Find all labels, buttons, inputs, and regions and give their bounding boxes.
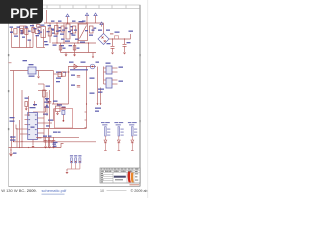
value RL2 c	[121, 135, 124, 136]
value F1b	[10, 32, 13, 33]
wire bottom rail 3	[9, 147, 62, 149]
resistor R2	[115, 36, 119, 39]
stem C7	[62, 115, 64, 121]
tp tick 1	[71, 161, 72, 162]
optocoupler U3	[106, 66, 112, 74]
svg-text:10: 10	[100, 189, 104, 193]
junction top bus b	[67, 22, 68, 23]
pin U3 l1	[104, 67, 107, 69]
capacitor C3	[111, 47, 115, 49]
wire mid v2	[49, 90, 51, 128]
label Q1	[53, 101, 58, 102]
switcher IC U2	[79, 24, 88, 41]
tp common wire	[67, 168, 80, 170]
ground G2	[73, 55, 76, 57]
label TP2	[74, 155, 77, 156]
frame tick left B	[8, 90, 9, 92]
title text r1g	[121, 168, 123, 171]
title text r1c	[106, 168, 107, 171]
label caps row b	[58, 132, 61, 133]
pin U5 r5	[37, 137, 41, 139]
tp stem 2	[75, 163, 77, 169]
title text right c	[135, 179, 138, 182]
frame top ruler band	[9, 5, 141, 9]
junction rail1 b	[21, 141, 22, 142]
frame bottom border	[9, 186, 141, 188]
wire drop M6	[74, 43, 76, 53]
gnd stem C3	[112, 48, 114, 52]
mcu centre text	[31, 127, 35, 128]
pin text U5 e0	[35, 115, 37, 116]
pin text U5 d	[28, 134, 30, 135]
pin tick rail b1	[85, 111, 87, 113]
pin U5 l1	[25, 119, 28, 121]
label mcu right a	[43, 114, 48, 115]
junction C7 end	[63, 120, 65, 122]
varistor RV1	[25, 29, 28, 35]
wire rail left	[13, 71, 15, 142]
label terminals 2	[95, 111, 99, 112]
resistor R12	[25, 102, 28, 107]
label strip x12	[74, 30, 77, 31]
label U3	[106, 63, 111, 64]
diode marker blue a	[46, 99, 48, 101]
junction J1	[112, 38, 113, 39]
label B1	[98, 30, 102, 31]
wire drop aux	[68, 67, 70, 105]
label C2	[72, 35, 76, 36]
wire bl v1	[11, 136, 13, 148]
label strip x9	[56, 31, 60, 32]
label LED1 a2	[105, 122, 110, 123]
capacitor C7 bars	[61, 108, 66, 110]
pin U4 r2	[112, 83, 118, 85]
frame tick left A	[8, 54, 9, 56]
pin U5 l2	[25, 124, 28, 126]
wire mcu stub v	[45, 106, 47, 112]
net arrow a	[67, 71, 69, 73]
frame tick right B	[139, 120, 140, 122]
net label U4r	[119, 81, 124, 82]
gnd stem C4	[124, 46, 126, 52]
label mcu right b	[48, 120, 53, 121]
pin tick rail b3	[85, 127, 87, 129]
capacitor CX1	[32, 28, 35, 33]
wire mid v3	[21, 90, 23, 112]
value RL3 a	[134, 129, 137, 130]
wire dc rail	[109, 38, 131, 40]
label strip x10	[62, 30, 65, 31]
wire mid v4	[28, 96, 30, 116]
label mid strip f	[75, 39, 79, 40]
LED D7	[131, 140, 134, 143]
diode D9	[37, 25, 40, 28]
value CX2	[52, 30, 55, 31]
power arrow P1	[66, 14, 69, 19]
value R1b	[59, 30, 62, 31]
inductor L2	[35, 29, 38, 34]
label F1	[10, 27, 14, 28]
wire drop M10	[95, 18, 97, 24]
svg-text:© 2009 ab: © 2009 ab	[131, 189, 148, 193]
capacitor C7 body	[62, 111, 65, 115]
label mid strip c	[38, 27, 41, 28]
label strip x18	[69, 45, 73, 46]
gnd stem U5	[32, 140, 34, 146]
value CX1	[28, 31, 31, 32]
wire riser X1	[46, 10, 48, 23]
label C10	[53, 144, 57, 145]
gnd stem G1	[65, 53, 67, 55]
frame left border	[8, 5, 10, 187]
wire stub left edge	[9, 62, 12, 64]
title block row line 1	[100, 169, 140, 171]
title text r3a	[101, 172, 103, 175]
wire drop M2	[56, 23, 58, 43]
label CX1	[30, 25, 34, 26]
value T2b	[38, 33, 41, 34]
power arrow P3	[94, 13, 97, 18]
title text r2f	[109, 170, 112, 173]
label mcu left b	[10, 121, 15, 122]
label R3	[63, 48, 66, 49]
capacitor C5	[77, 76, 80, 78]
label C12	[77, 48, 80, 49]
tp corner drop	[66, 169, 68, 172]
label LED1 b	[102, 124, 107, 125]
led terminal 1	[104, 150, 107, 152]
pin text U5 e	[35, 119, 37, 120]
value RL3 b	[134, 132, 137, 133]
value U2	[80, 42, 85, 43]
led stem 3 top	[131, 136, 133, 140]
note below title block	[130, 184, 140, 185]
label LED2 b	[116, 124, 121, 125]
label CX2	[48, 25, 52, 26]
frame right border	[139, 5, 141, 187]
label terminals	[95, 108, 101, 109]
label mid strip d	[44, 41, 48, 42]
pin U5 l0	[25, 114, 28, 116]
microcontroller U5	[28, 113, 38, 140]
label strip x16	[53, 45, 57, 46]
led stem 1 top	[104, 136, 106, 140]
title text r2d	[121, 170, 126, 173]
gnd stem K1	[38, 71, 40, 77]
LED D6	[117, 140, 120, 143]
switcher IC U2 diagonal	[80, 26, 87, 39]
wire bl v2	[16, 128, 18, 148]
label strip x11	[68, 31, 71, 32]
junction J5	[10, 149, 11, 150]
value U1c	[71, 33, 74, 34]
value L2	[36, 35, 40, 36]
title block row line 6	[100, 180, 113, 182]
svg-text:schematic.pdf: schematic.pdf	[42, 188, 68, 193]
wire opto feed	[103, 67, 105, 85]
label strip x13	[85, 30, 88, 31]
bridge rectifier B1	[98, 34, 109, 45]
label caps row a	[53, 132, 57, 133]
pin text U5 h	[35, 134, 37, 135]
supply arrow A1	[10, 152, 13, 156]
ground G1	[65, 55, 68, 57]
net row b1	[56, 78, 61, 79]
resistor R3	[59, 46, 62, 51]
tp tick 2	[75, 161, 76, 162]
resistor RL2	[118, 127, 120, 136]
value R2 red	[110, 33, 113, 34]
wire strip v1	[23, 26, 25, 34]
label R12	[25, 98, 29, 99]
label D3	[69, 62, 74, 63]
wire loop bottom left	[12, 47, 34, 49]
ground G14	[32, 146, 35, 148]
title block row line 4	[100, 176, 113, 178]
label C2 left b	[53, 146, 57, 147]
wire q stub	[38, 90, 47, 92]
junction q stub	[43, 90, 44, 91]
label right of U5 b	[44, 107, 49, 108]
label C2 left a	[53, 142, 58, 143]
label strip x4	[28, 40, 32, 41]
capacitor C11	[48, 101, 52, 103]
title text r1k	[124, 168, 126, 171]
label right of U5 a	[44, 102, 49, 103]
footer link underline	[42, 193, 65, 195]
junction J4	[86, 103, 87, 104]
pin U4 l1	[104, 79, 107, 81]
label supply	[13, 153, 17, 154]
capacitor CY1	[20, 29, 23, 34]
title block row line 2	[100, 171, 140, 173]
label C7	[57, 104, 62, 105]
pin text U5 b	[28, 124, 30, 125]
wire out riser	[130, 34, 132, 39]
junction mid bus c	[77, 42, 78, 43]
wire drop M9	[88, 43, 90, 53]
pin text U5 a0	[28, 115, 30, 116]
value RL1 a	[107, 129, 110, 130]
junction rail2 a	[19, 147, 20, 148]
wire mcu left rail	[21, 112, 23, 148]
label LP1	[96, 62, 100, 63]
wire loop bottom mid	[37, 47, 46, 49]
tp tick 3	[79, 161, 80, 162]
wire bottom corner	[61, 144, 64, 148]
title block col line main	[112, 168, 114, 183]
wire low bus	[61, 52, 97, 54]
label strip x5	[34, 28, 37, 29]
pin text U5 c	[28, 129, 30, 130]
value U1b	[71, 30, 74, 31]
wire bottom rail 1	[36, 136, 79, 138]
label strip x6	[39, 32, 42, 33]
title text right a	[135, 172, 138, 175]
lamp LP1	[90, 64, 95, 69]
diode D1	[61, 26, 64, 32]
LED D5	[104, 140, 107, 143]
label D4	[81, 62, 86, 63]
title text r2b	[105, 170, 108, 173]
arrow end M9	[92, 57, 94, 59]
wire drop end	[92, 53, 94, 57]
wire drop L5	[36, 35, 38, 48]
transformer T2	[41, 27, 45, 38]
wire above mcu	[33, 111, 46, 113]
svg-text:W 130 W BC- 2009.: W 130 W BC- 2009.	[1, 188, 37, 193]
label U2	[79, 21, 84, 22]
capacitor C12	[73, 46, 76, 51]
net label top b	[58, 21, 62, 22]
resistor RL3	[132, 127, 134, 136]
wire strip h1	[20, 25, 27, 27]
wire opto rail 2	[100, 88, 102, 104]
pin U3 r2	[112, 71, 118, 73]
label LED1 a1	[101, 122, 105, 123]
label T2	[41, 25, 45, 26]
fuse F1	[14, 29, 17, 35]
wire cap drop 1	[112, 39, 114, 46]
value K1	[29, 76, 35, 77]
wire bottom rail 2	[14, 141, 97, 143]
title text r7a	[101, 180, 103, 183]
wire mid bus	[52, 42, 96, 44]
wire low line	[52, 103, 69, 105]
gnd stem Q1	[57, 112, 59, 114]
value Q1	[62, 107, 66, 108]
junction top bus a	[56, 22, 57, 23]
pin tick rail b2	[85, 119, 87, 121]
junction rail1 a	[13, 141, 14, 142]
label C6	[71, 85, 75, 86]
snubber D2	[89, 26, 93, 33]
ground G12	[66, 172, 69, 174]
label bl row2	[10, 139, 16, 140]
net label top a	[51, 21, 55, 22]
junction mid bus d	[88, 42, 89, 43]
label C8	[43, 136, 47, 137]
power arrow P2	[85, 13, 88, 18]
testpoint TP1	[71, 158, 73, 163]
gnd stem G2	[74, 53, 76, 55]
net right c	[98, 89, 104, 90]
wire mcu left rail 2	[19, 120, 21, 148]
wire drop M1	[49, 23, 51, 43]
title block row line 3	[100, 173, 113, 175]
ground above U5	[33, 101, 36, 106]
wire r11 stub	[54, 73, 62, 75]
label C3	[107, 43, 111, 44]
net terminal T1	[97, 104, 99, 106]
capacitor C8	[44, 140, 48, 142]
title block row line 5	[100, 178, 113, 180]
value B1	[106, 30, 110, 31]
isolation boundary	[55, 109, 73, 129]
title text r1b	[104, 168, 105, 171]
page edge line	[147, 0, 149, 198]
power arrow P4	[100, 22, 103, 27]
label mid strip a	[21, 30, 24, 31]
net terminal T2	[100, 104, 102, 106]
wire rail centre a	[53, 71, 55, 105]
pin U3 l2	[104, 71, 107, 73]
wire gnd left stem	[10, 148, 12, 153]
capacitor C9	[48, 140, 52, 142]
resistor R13	[58, 73, 62, 77]
ground G4	[111, 53, 114, 55]
title text r4a	[101, 174, 104, 177]
pin U5 r3	[37, 128, 86, 130]
pdf badge	[0, 0, 43, 24]
pin U4 r1	[112, 79, 118, 81]
testpoint TP3	[79, 158, 81, 163]
label mid strip b	[21, 33, 24, 34]
ground G6	[37, 77, 40, 79]
value RV1	[21, 32, 24, 33]
title text r2c	[114, 170, 119, 173]
value D2	[94, 28, 97, 29]
value RL2 a	[121, 129, 124, 130]
label U1	[65, 41, 70, 42]
wire mcu right drop	[43, 118, 45, 142]
net right b	[90, 93, 95, 94]
led stem 1 bottom	[104, 143, 106, 151]
value RL3 c	[134, 135, 137, 136]
title block outer	[100, 168, 140, 183]
pin U5 r2	[37, 122, 52, 124]
title text r1a	[101, 168, 102, 171]
label mcu right c	[46, 125, 50, 126]
wire drop M5	[67, 19, 69, 24]
ground G10	[48, 147, 51, 149]
capacitor C2	[73, 26, 76, 33]
led terminal 2	[118, 150, 121, 152]
net right d	[98, 92, 103, 93]
pin U4 l2	[104, 83, 107, 85]
junction mid bus a	[56, 42, 57, 43]
wire mid h1	[38, 83, 44, 85]
label LED2 a1	[114, 122, 118, 123]
wire drop L2	[19, 26, 21, 48]
net long label	[70, 69, 88, 70]
wire top bus	[44, 22, 104, 24]
label LED3 b	[129, 124, 134, 125]
net label top c	[72, 21, 76, 22]
pin text U5 g	[35, 129, 37, 130]
title block col line right	[133, 168, 135, 183]
pin U5 l4	[20, 133, 28, 135]
capacitor C10	[52, 140, 56, 142]
ground G9	[44, 147, 47, 149]
label D2	[89, 35, 93, 36]
diode marker blue b	[46, 105, 48, 107]
gnd stem R12	[25, 107, 27, 109]
value RL2 b	[121, 132, 124, 133]
title text r1d	[109, 168, 110, 171]
svg-text:PDF: PDF	[10, 5, 38, 21]
pin text U5 a	[28, 119, 30, 120]
frame tick right A	[139, 54, 140, 56]
junction mid bus b	[63, 42, 64, 43]
wire opto rail	[97, 67, 99, 104]
title text r1l	[131, 168, 133, 171]
label mid b1	[33, 104, 37, 105]
label strip x14	[92, 30, 95, 31]
wire drop M3	[60, 43, 62, 53]
ground G5	[123, 53, 126, 55]
wire drop M4	[63, 23, 65, 43]
